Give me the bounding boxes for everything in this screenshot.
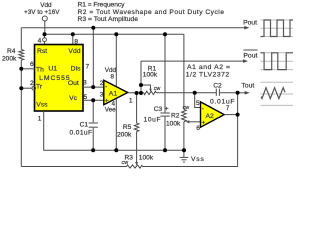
wire: R5 and R3 wiper vertical xyxy=(136,93,138,123)
svg-text:Vc: Vc xyxy=(69,95,78,102)
svg-text:Tr: Tr xyxy=(36,83,43,90)
svg-text:6: 6 xyxy=(30,61,34,68)
svg-text:+3V to +16V: +3V to +16V xyxy=(24,9,60,16)
wire: output bus line1 from left vertical to Pout xyxy=(21,27,245,29)
svg-text:1: 1 xyxy=(38,115,42,122)
capacitor C3 xyxy=(164,34,166,112)
ground Vss xyxy=(180,156,189,158)
node: R1 wiper tap xyxy=(139,83,143,87)
wire: Out pin3 to A1 xyxy=(83,86,104,88)
node: A2 output junction xyxy=(236,113,240,117)
svg-text:+: + xyxy=(202,120,206,127)
svg-text:10uF: 10uF xyxy=(144,117,161,124)
wire: Vc pin5 to A1 xyxy=(83,99,104,101)
node: A1 Vdd pin junction on Vdd bus xyxy=(114,32,118,36)
svg-text:5: 5 xyxy=(196,100,200,107)
svg-text:Tout: Tout xyxy=(241,83,254,90)
svg-text:Out: Out xyxy=(68,80,79,87)
svg-text:100k: 100k xyxy=(166,120,181,127)
Pout arrow xyxy=(244,26,249,30)
wire: left vertical (Out feedback to Th/Tr and R3) xyxy=(20,28,22,50)
svg-text:R2 = Tout Waveshape and Pout D: R2 = Tout Waveshape and Pout Duty Cycle xyxy=(78,9,225,16)
svg-text:Dis: Dis xyxy=(71,66,81,73)
op-amp A1 xyxy=(104,80,128,104)
svg-text:3: 3 xyxy=(100,92,104,99)
svg-text:Rst: Rst xyxy=(37,48,47,55)
pin 8 stub xyxy=(72,34,74,44)
svg-text:R1 = Frequency: R1 = Frequency xyxy=(78,2,126,9)
wire: Th from left vertical xyxy=(21,68,35,70)
svg-text:C1: C1 xyxy=(80,122,89,129)
node: Out pin junction with riser xyxy=(91,85,95,89)
A1 Vdd stub xyxy=(115,34,117,86)
svg-text:cw: cw xyxy=(154,86,161,92)
svg-text:-: - xyxy=(202,105,204,112)
wire: bottom line to R3 xyxy=(21,166,126,168)
wire: Tout vertical down to R3 right end xyxy=(237,93,239,167)
svg-text:+: + xyxy=(105,98,109,105)
resistor R3 body xyxy=(127,165,143,168)
svg-text:Pout: Pout xyxy=(243,20,257,27)
svg-text:R4: R4 xyxy=(7,48,16,55)
wire: A1 output line xyxy=(128,92,144,94)
wire: A2 output xyxy=(224,114,237,116)
svg-text:A2: A2 xyxy=(206,113,215,120)
svg-text:Pout: Pout xyxy=(243,52,257,59)
svg-text:R3 = Tout Amplitude: R3 = Tout Amplitude xyxy=(78,16,139,23)
svg-text:R5: R5 xyxy=(123,124,132,131)
node: Th junction (R4 bottom) xyxy=(19,67,23,71)
wire: Pbar out line xyxy=(141,60,245,62)
R2 wiper to A2 pin6 xyxy=(188,121,200,123)
svg-text:0.01uF: 0.01uF xyxy=(210,99,235,106)
pin 1 Vss wire down to ground bus xyxy=(44,111,184,150)
wire: feedback line to C2 xyxy=(157,92,217,94)
svg-text:7: 7 xyxy=(226,105,230,112)
node: C3 on ground bus xyxy=(163,148,167,152)
svg-text:2: 2 xyxy=(100,80,104,87)
node: Tr junction xyxy=(19,86,23,90)
wire: A2 pin5 node from feedback line xyxy=(195,93,201,108)
svg-text:+: + xyxy=(165,106,169,113)
svg-text:8: 8 xyxy=(111,74,115,81)
waveform glyph Pout square wave xyxy=(261,20,294,37)
op-amp A2 xyxy=(201,102,225,127)
wire: out riser to line1 xyxy=(92,28,94,87)
svg-text:6: 6 xyxy=(196,125,200,132)
node: A2 inverting input node xyxy=(193,91,197,95)
node: pin 8 junction on Vdd bus xyxy=(71,32,75,36)
R1 wiper xyxy=(141,85,151,89)
svg-text:cw: cw xyxy=(122,160,129,166)
svg-text:200k: 200k xyxy=(117,131,132,138)
node: Tout node top xyxy=(236,91,240,95)
svg-text:Vss: Vss xyxy=(36,102,48,109)
node: C3 junction on Vdd bus xyxy=(163,32,167,36)
svg-text:3: 3 xyxy=(83,79,87,86)
resistor R1 body xyxy=(144,91,157,94)
node: Vc pin junction with C1 xyxy=(91,98,95,102)
resistor R2 body xyxy=(182,110,187,122)
pin 4 Rst stub with bubble xyxy=(44,34,46,38)
potentiometer R2 lead from Vdd bus xyxy=(183,34,185,109)
svg-text:4: 4 xyxy=(38,37,42,44)
svg-text:Vss: Vss xyxy=(191,156,204,163)
svg-text:A1: A1 xyxy=(109,91,118,98)
node: R2 bottom and ground stub xyxy=(182,148,186,152)
capacitor C1 xyxy=(92,100,94,122)
svg-text:2: 2 xyxy=(30,80,34,87)
resistor R4 xyxy=(19,50,24,61)
svg-text:100k: 100k xyxy=(139,154,154,161)
wire: Pbar riser from A1 out xyxy=(140,61,142,93)
A1 Vee stub xyxy=(115,98,117,151)
svg-text:1/2 TLV2372: 1/2 TLV2372 xyxy=(186,71,230,78)
node: R1 left end on A1 output xyxy=(139,91,143,95)
Tout arrow xyxy=(238,92,247,94)
svg-text:0.01uF: 0.01uF xyxy=(70,130,93,137)
svg-text:LMC555: LMC555 xyxy=(39,75,70,82)
svg-text:Vee: Vee xyxy=(105,107,116,114)
svg-text:-: - xyxy=(105,84,107,91)
svg-text:U1: U1 xyxy=(48,66,57,73)
Pbar out arrow xyxy=(243,59,248,63)
svg-text:200k: 200k xyxy=(2,55,17,62)
svg-text:Vdd: Vdd xyxy=(68,48,80,55)
svg-text:5: 5 xyxy=(84,94,88,101)
svg-text:1: 1 xyxy=(129,97,133,104)
capacitor C2 xyxy=(215,89,217,96)
svg-text:Th: Th xyxy=(36,67,44,74)
svg-text:C3: C3 xyxy=(154,106,163,113)
waveform glyph Tout triangle wave xyxy=(261,82,294,105)
svg-text:100k: 100k xyxy=(143,71,158,78)
node: A1 Vee on ground bus xyxy=(114,148,118,152)
svg-text:A1 and A2 =: A1 and A2 = xyxy=(187,64,230,71)
resistor R5 body xyxy=(134,123,139,132)
node: Vdd input junction on Vdd bus xyxy=(43,32,47,36)
wire: Tr with bubble xyxy=(21,87,32,89)
power terminal Vdd xyxy=(42,16,47,21)
node: R5 tap on A1 output xyxy=(135,91,139,95)
node: 555 Out tap on line1 xyxy=(91,26,95,30)
svg-text:cw: cw xyxy=(183,105,190,111)
node: C1 on ground bus xyxy=(91,148,95,152)
svg-text:C2: C2 xyxy=(213,82,222,89)
svg-text:R2: R2 xyxy=(171,113,180,120)
svg-text:7: 7 xyxy=(86,64,90,71)
waveform glyph Pbar square wave xyxy=(261,53,294,70)
IC U1 LMC555 xyxy=(35,45,84,112)
wire: Vdd bus line2 xyxy=(45,33,184,35)
